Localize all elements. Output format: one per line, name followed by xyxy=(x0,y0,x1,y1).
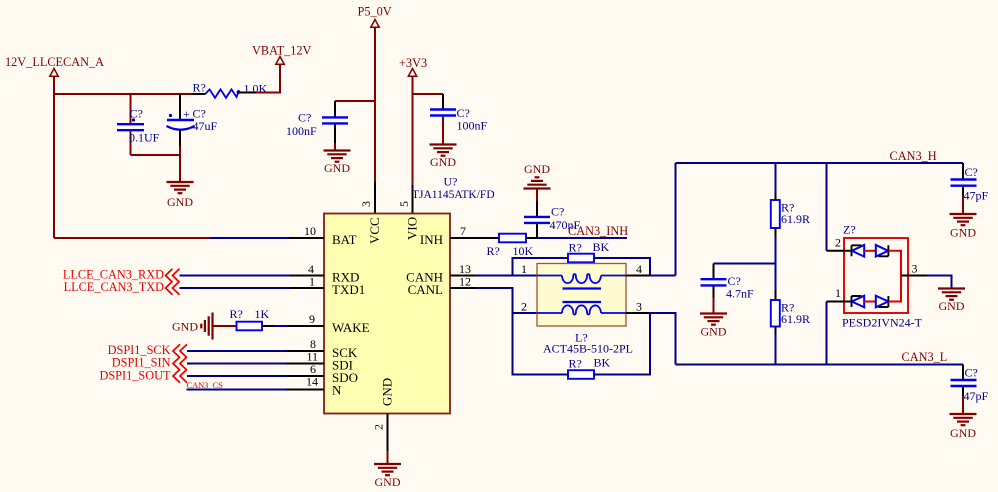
TVS internal junction wire to pin 3 xyxy=(888,251,901,302)
resistor R4 BK top xyxy=(568,240,610,262)
capacitor C4 100nF xyxy=(286,101,348,150)
svg-text:LLCE_CAN3_TXD: LLCE_CAN3_TXD xyxy=(64,280,165,294)
svg-text:GND: GND xyxy=(950,426,976,440)
power port VBAT_12V xyxy=(252,43,312,64)
pin 14 N xyxy=(306,375,342,398)
svg-text:VIO: VIO xyxy=(405,217,420,240)
wire TVS pin1 to CAN3_L xyxy=(827,302,852,365)
svg-text:CANL: CANL xyxy=(408,282,443,297)
wire cap bottoms join xyxy=(131,155,181,181)
pin 3 VCC xyxy=(359,201,382,244)
wire GND pin 2 xyxy=(387,414,389,464)
wire top termination leg xyxy=(775,163,777,193)
port DSPI1_SCK xyxy=(108,343,187,357)
svg-text:3: 3 xyxy=(912,262,918,276)
ground under C4 xyxy=(324,151,351,176)
svg-text:GND: GND xyxy=(167,195,193,209)
wire SOUT net xyxy=(187,375,324,377)
wire CAN3_H bus line xyxy=(676,162,964,164)
svg-text:1: 1 xyxy=(521,262,527,276)
pin 1 TXD1 xyxy=(309,275,365,298)
ground under top 47pF xyxy=(950,214,977,240)
wire CANH pin13 to choke pin1 xyxy=(450,275,537,277)
capacitor C8 47pF on CAN3_H xyxy=(951,163,989,213)
wire WAKE net xyxy=(262,325,324,327)
svg-text:PESD2IVN24-T: PESD2IVN24-T xyxy=(842,316,923,330)
svg-text:0.1UF: 0.1UF xyxy=(129,131,160,145)
TVS Z? PESD2IVN24-T xyxy=(842,223,923,330)
ground under C5 xyxy=(430,145,457,170)
ground under 4.7nF xyxy=(700,314,727,339)
wire BAT net xyxy=(54,237,324,239)
svg-text:TJA1145ATK/FD: TJA1145ATK/FD xyxy=(412,189,495,201)
svg-text:2: 2 xyxy=(521,300,527,314)
wire 12V_LLCECAN_A vertical to BAT row xyxy=(53,77,55,238)
svg-text:5: 5 xyxy=(397,201,411,207)
svg-text:GND: GND xyxy=(380,378,395,406)
svg-text:ACT45B-510-2PL: ACT45B-510-2PL xyxy=(543,342,633,356)
wire resistor to VBAT_12V xyxy=(239,92,257,94)
inductor L? ACT45B-510-2PL common mode choke xyxy=(537,264,633,356)
svg-text:9: 9 xyxy=(309,312,315,326)
svg-text:R?: R? xyxy=(569,357,582,371)
ground at TVS pin3 xyxy=(938,289,965,314)
power port P5_0V xyxy=(358,4,392,27)
wire INH net after resistor xyxy=(526,237,627,239)
svg-text:2: 2 xyxy=(835,236,841,250)
svg-text:U?: U? xyxy=(444,175,458,189)
op IC U? TJA1145ATK/FD body xyxy=(324,175,495,414)
svg-text:100nF: 100nF xyxy=(457,119,488,133)
wire bottom bypass loop xyxy=(513,313,569,375)
pin 7 INH xyxy=(420,224,466,247)
svg-text:61.9R: 61.9R xyxy=(781,212,810,226)
svg-text:C?: C? xyxy=(551,205,564,219)
wire SCK net xyxy=(187,350,324,352)
svg-text:C?: C? xyxy=(298,111,311,125)
svg-text:3: 3 xyxy=(636,300,642,314)
resistor R3 10K xyxy=(487,234,534,258)
svg-text:4.7nF: 4.7nF xyxy=(726,287,754,301)
svg-text:GND: GND xyxy=(950,226,976,240)
pin 13 CANH xyxy=(406,262,471,285)
pin 6 SDO xyxy=(310,362,358,385)
pin 4 RXD xyxy=(308,262,359,285)
svg-text:GND: GND xyxy=(524,162,550,176)
pin 9 WAKE xyxy=(309,312,370,335)
svg-text:+3V3: +3V3 xyxy=(399,56,427,70)
svg-text:47pF: 47pF xyxy=(964,389,989,403)
ground under bottom 47pF xyxy=(950,414,977,440)
svg-text:61.9R: 61.9R xyxy=(781,312,810,326)
svg-text:R?: R? xyxy=(193,81,206,95)
svg-text:VCC: VCC xyxy=(367,217,382,244)
pin 8 SCK xyxy=(310,337,358,360)
port DSPI1_SOUT xyxy=(99,368,187,382)
pin 10 BAT xyxy=(304,224,357,247)
svg-text:BK: BK xyxy=(593,240,610,254)
svg-text:47pF: 47pF xyxy=(964,189,989,203)
wire gnd to R wake xyxy=(213,325,237,327)
resistor R2 1K xyxy=(230,307,270,330)
wire top bypass loop xyxy=(513,258,569,276)
svg-text:12V_LLCECAN_A: 12V_LLCECAN_A xyxy=(5,55,104,69)
wire CANL pin12 to choke pin2 xyxy=(450,288,537,313)
wire INH pin7 to resistor xyxy=(450,237,499,239)
svg-text:VBAT_12V: VBAT_12V xyxy=(252,43,312,57)
svg-text:+: + xyxy=(183,107,190,121)
wire branch to C5 xyxy=(413,93,444,95)
resistor R6 61.9R top xyxy=(771,200,810,228)
capacitor C2 0.1UF xyxy=(117,94,160,155)
capacitor C3 47uF polarized xyxy=(167,94,218,155)
TVS internal top diode pair xyxy=(852,245,889,257)
svg-text:N: N xyxy=(332,383,342,398)
svg-text:Z?: Z? xyxy=(843,223,856,237)
svg-text:BK: BK xyxy=(594,356,611,370)
ground left of wake resistor xyxy=(172,313,213,340)
svg-text:2: 2 xyxy=(372,424,386,430)
resistor R5 BK bottom xyxy=(568,356,611,379)
wire choke pin4 to CAN3_H xyxy=(626,163,676,276)
wire top bypass right leg xyxy=(594,258,650,276)
svg-text:C?: C? xyxy=(965,165,978,179)
wire RXD net xyxy=(180,275,325,277)
svg-text:GND: GND xyxy=(701,325,727,339)
port DSPI1_SIN xyxy=(112,356,187,370)
pin 5 VIO xyxy=(397,201,420,240)
svg-text:CAN3_L: CAN3_L xyxy=(902,350,948,364)
svg-text:1: 1 xyxy=(835,286,841,300)
wire bottom bypass right leg xyxy=(594,313,650,375)
power port +3V3 xyxy=(399,56,427,76)
wire CAN3_L bus line xyxy=(676,364,964,366)
resistor R1 1.0K (zigzag) xyxy=(193,81,268,98)
capacitor C6 470nF xyxy=(524,189,581,238)
wire bottom termination leg xyxy=(775,327,777,335)
svg-text:WAKE: WAKE xyxy=(332,320,370,335)
svg-text:470nF: 470nF xyxy=(550,218,581,232)
svg-text:BAT: BAT xyxy=(332,232,357,247)
capacitor C5 100nF xyxy=(430,94,488,144)
pin 12 CANL xyxy=(408,275,471,298)
svg-text:C?: C? xyxy=(130,107,143,121)
ground under IC xyxy=(374,464,401,489)
wire choke pin3 to CAN3_L xyxy=(626,313,676,365)
svg-text:R?: R? xyxy=(487,244,500,258)
svg-text:1: 1 xyxy=(309,275,315,289)
wire termination midpoint xyxy=(714,228,776,300)
wire TXD net xyxy=(180,287,325,289)
svg-text:GND: GND xyxy=(375,475,401,489)
svg-text:GND: GND xyxy=(430,155,456,169)
svg-text:47uF: 47uF xyxy=(193,119,218,133)
svg-text:10K: 10K xyxy=(513,244,534,258)
svg-text:GND: GND xyxy=(939,299,965,313)
pin 11 SDI xyxy=(306,350,353,373)
svg-text:1K: 1K xyxy=(255,307,270,321)
svg-text:CAN3_H: CAN3_H xyxy=(890,149,937,163)
capacitor C7 4.7nF xyxy=(701,264,755,313)
TVS internal bottom diode pair xyxy=(852,296,889,308)
svg-text:10: 10 xyxy=(304,224,316,238)
wire P5_0V to VCC xyxy=(374,28,376,214)
wire CS net xyxy=(187,389,325,391)
wire TVS pin3 to ground xyxy=(901,276,952,289)
svg-text:TXD1: TXD1 xyxy=(332,282,365,297)
wire TVS pin2 to CAN3_H xyxy=(827,163,852,251)
svg-text:100nF: 100nF xyxy=(286,124,317,138)
resistor R7 61.9R bottom xyxy=(771,300,810,327)
capacitor C9 47pF on CAN3_L xyxy=(951,365,989,414)
svg-text:INH: INH xyxy=(420,232,443,247)
svg-text:3: 3 xyxy=(359,201,373,207)
svg-text:GND: GND xyxy=(324,161,350,175)
svg-text:C?: C? xyxy=(965,366,978,380)
wire SIN net xyxy=(187,363,324,365)
svg-text:R?: R? xyxy=(230,307,243,321)
svg-text:12: 12 xyxy=(459,275,471,289)
ground under 47uF xyxy=(167,182,194,209)
svg-text:GND: GND xyxy=(172,320,198,334)
svg-text:4: 4 xyxy=(636,262,642,276)
svg-text:P5_0V: P5_0V xyxy=(358,4,392,18)
port LLCE_CAN3_RXD xyxy=(63,268,180,282)
svg-text:R?: R? xyxy=(569,241,582,255)
wire branch to C4 xyxy=(335,100,375,102)
svg-text:7: 7 xyxy=(460,224,466,238)
pin 2 GND xyxy=(372,378,395,430)
wire +3V3 to VIO xyxy=(412,77,414,214)
power port 12V_LLCECAN_A xyxy=(5,55,104,76)
ground above 470nF inverted xyxy=(524,162,551,189)
svg-text:DSPI1_SOUT: DSPI1_SOUT xyxy=(99,368,171,382)
wire 12V feed horizontal to resistor xyxy=(54,93,193,95)
port LLCE_CAN3_TXD xyxy=(64,280,180,294)
